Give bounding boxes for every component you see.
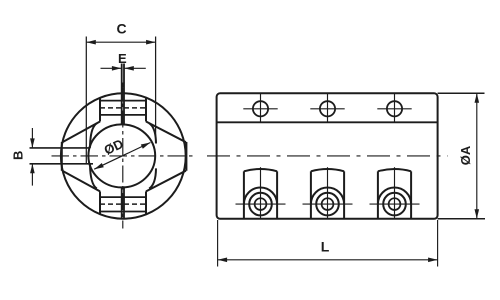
left side flat bbox=[61, 142, 63, 171]
clamp lug 2 top edge bbox=[311, 169, 344, 171]
screw 1 vertical centerline bbox=[260, 167, 262, 219]
top hole 1 horizontal centerline bbox=[243, 108, 277, 110]
bottom screw hidden line bbox=[100, 203, 146, 205]
bottom screw seat line bbox=[100, 196, 146, 198]
screw 1 head circle bbox=[249, 193, 272, 216]
dimension E right arrow bbox=[124, 67, 146, 69]
clamp lug 3 left wall bbox=[377, 171, 379, 219]
slit leader arrow bbox=[121, 83, 125, 89]
bottom screw head line bbox=[100, 211, 146, 213]
dimension C line bbox=[86, 41, 155, 43]
clamp lug 1 left wall bbox=[243, 171, 245, 219]
clamp lug 2 left wall bbox=[310, 171, 312, 219]
bottom-left chamfer edge bbox=[62, 171, 100, 192]
top hole 3 horizontal centerline bbox=[377, 108, 411, 110]
OA extension top bbox=[438, 92, 485, 94]
screw 3 vertical centerline bbox=[394, 167, 396, 219]
OA extension bottom bbox=[438, 218, 485, 220]
clamp lug 3 right wall bbox=[410, 171, 412, 219]
top screw seat line bbox=[100, 114, 146, 116]
top screw head line bbox=[100, 100, 146, 102]
coupling body outline bbox=[217, 93, 438, 219]
screw 3 horizontal centerline bbox=[370, 203, 420, 205]
L extension left bbox=[217, 220, 219, 267]
screw 1 horizontal centerline bbox=[236, 203, 286, 205]
top flat edge line bbox=[217, 121, 438, 123]
top hole 2 vertical centerline bbox=[327, 93, 329, 122]
vertical centerline (left view) bbox=[122, 88, 124, 229]
horizontal centerline (side view) bbox=[207, 155, 448, 157]
top hole 2 circle bbox=[320, 101, 335, 116]
screw 1 counterbore arc bbox=[244, 188, 277, 205]
slot upper edge bbox=[30, 147, 91, 149]
bottom slit edge right bbox=[123, 187, 125, 219]
slot end wall / C extension left bbox=[85, 37, 87, 164]
top hole 1 circle bbox=[253, 101, 268, 116]
top hole 3 circle bbox=[387, 101, 402, 116]
bottom-right chamfer edge bbox=[146, 171, 186, 192]
fillet bottom-left bbox=[90, 164, 97, 189]
screw 1 socket circle bbox=[255, 198, 267, 210]
screw 3 socket circle bbox=[389, 198, 401, 210]
top-left chamfer edge bbox=[62, 122, 100, 143]
bottom slit edge left bbox=[121, 187, 123, 219]
C extension right bbox=[155, 37, 157, 144]
top-right chamfer edge bbox=[146, 122, 186, 143]
outer circle of coupling body bbox=[61, 93, 186, 218]
screw 2 counterbore arc bbox=[311, 188, 344, 205]
bottom boss left wall bbox=[99, 191, 101, 213]
right side flat bbox=[185, 142, 187, 171]
svg-text:C: C bbox=[116, 21, 126, 37]
clamp lug 3 top edge bbox=[378, 169, 411, 171]
clamp lug 2 right wall bbox=[343, 171, 345, 219]
svg-text:ØA: ØA bbox=[458, 145, 473, 165]
dimension B line bbox=[31, 128, 33, 148]
dimension L line bbox=[218, 259, 438, 261]
bottom boss right wall bbox=[145, 191, 147, 213]
top hole 2 horizontal centerline bbox=[310, 108, 344, 110]
top hole 1 vertical centerline bbox=[260, 93, 262, 122]
bore circle OD bbox=[88, 124, 155, 187]
dimension OA line bbox=[476, 93, 478, 219]
svg-text:E: E bbox=[118, 51, 127, 66]
dimension OD line bbox=[94, 143, 150, 170]
clamp lug 1 right wall bbox=[276, 171, 278, 219]
clamp lug 1 top edge bbox=[244, 169, 277, 171]
dimension E left arrow bbox=[101, 67, 122, 69]
svg-text:L: L bbox=[321, 239, 330, 255]
L extension right bbox=[437, 220, 439, 267]
screw 3 counterbore arc bbox=[378, 188, 411, 205]
fillet top-left bbox=[90, 123, 97, 148]
screw 3 head circle bbox=[383, 193, 406, 216]
screw 2 socket circle bbox=[322, 198, 334, 210]
top slit edge left bbox=[121, 64, 123, 125]
screw 2 vertical centerline bbox=[327, 167, 329, 219]
svg-text:ØD: ØD bbox=[102, 136, 126, 158]
top hole 3 vertical centerline bbox=[394, 93, 396, 122]
top boss left wall bbox=[99, 98, 101, 121]
top boss right wall bbox=[145, 98, 147, 121]
top screw hidden line bbox=[100, 107, 146, 109]
fillet top-right bbox=[149, 123, 156, 143]
screw 2 head circle bbox=[316, 193, 339, 216]
svg-text:B: B bbox=[10, 151, 25, 160]
screw 2 horizontal centerline bbox=[303, 203, 353, 205]
fillet bottom-right bbox=[149, 168, 156, 188]
horizontal centerline (left view) bbox=[52, 155, 197, 157]
top slit edge right bbox=[123, 64, 125, 125]
slot lower edge bbox=[30, 163, 94, 165]
